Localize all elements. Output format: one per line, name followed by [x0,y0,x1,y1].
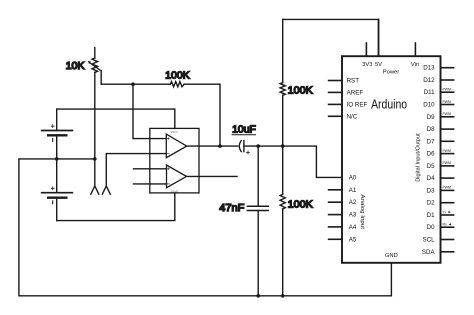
pin stub D0 [441,226,454,228]
svg-text:A2: A2 [349,199,357,206]
junction node C2 top [256,144,260,148]
pin stub D7 [441,140,454,142]
svg-text:D10: D10 [423,102,435,109]
wire C1 to Arduino A0 [244,146,342,177]
pin stub RST [329,80,342,82]
pin stub U1 amp B input - (open) [134,183,167,185]
svg-text:100K: 100K [165,71,190,82]
svg-text:PWM: PWM [443,112,451,116]
pin stub AREF [329,91,342,93]
svg-text:100K: 100K [288,199,313,210]
battery B2 [42,159,73,221]
pin stub U1 amp B output (open) [187,175,238,177]
probe hook (left, electrode) [91,186,99,194]
svg-text:3V3: 3V3 [362,62,372,68]
svg-text:Arduino: Arduino [371,97,407,112]
battery B1 [42,109,73,159]
pin stub D3 [441,189,454,191]
pin stub A1 [329,189,342,191]
svg-text:D13: D13 [423,65,435,72]
pin stub D4 [441,177,454,179]
svg-text:A5: A5 [349,236,357,243]
svg-text:PWM: PWM [443,88,451,92]
wire op-amp inverting input to probe hook [106,154,166,186]
svg-text:10K: 10K [66,61,85,72]
svg-text:100K: 100K [288,85,313,96]
pin stub D10 [441,104,454,106]
wire ground bus (left loop and bottom rail to Arduino GND) [19,159,392,296]
pin stub A5 [329,238,342,240]
svg-text:A0: A0 [349,174,357,181]
pin stub Vin [414,43,416,56]
wire wiper node down to op-amp non-inverting input [133,84,166,138]
junction output node feedback [218,144,222,148]
pin stub A2 [329,201,342,203]
pin stub U1 amp B input + (open) [134,168,167,170]
Arduino U2 body [342,56,441,263]
svg-text:SCL: SCL [423,237,436,244]
svg-text:47nF: 47nF [219,203,244,214]
svg-text:GND: GND [171,189,179,193]
capacitor C1 10uF (polarized) [239,141,249,154]
svg-text:D2: D2 [427,200,435,207]
svg-text:Rx: Rx [443,223,447,227]
pin stub D2 [441,202,454,204]
junction ground bus R4 [281,294,285,298]
junction battery midpoint [55,157,59,161]
svg-text:D1: D1 [427,212,435,219]
svg-text:D0: D0 [427,224,435,231]
svg-text:D5: D5 [427,163,435,170]
svg-text:A4: A4 [349,224,357,231]
svg-text:10uF: 10uF [232,124,256,135]
op-amp U1 body [150,128,199,193]
op-amp U1 amplifier A [166,134,186,158]
svg-text:PWM: PWM [443,149,451,153]
pin stub D12 [441,79,454,81]
junction wiper node [131,82,135,86]
pin stub D5 [441,165,454,167]
svg-text:D12: D12 [423,77,435,84]
capacitor C2 47nF [247,146,268,296]
svg-text:SDA: SDA [422,249,436,256]
probe hook (right, electrode) [102,186,110,194]
junction pot bottom / probe [93,157,97,161]
pin stub D1 [441,214,454,216]
op-amp U1 amplifier B [167,165,187,188]
svg-text:Analog Input: Analog Input [359,194,365,229]
svg-text:IO REF: IO REF [347,101,368,108]
svg-text:D11: D11 [424,89,435,96]
svg-text:Digital Input/Output: Digital Input/Output [416,133,422,182]
svg-text:D8: D8 [427,126,435,133]
svg-text:A3: A3 [349,212,357,219]
pin stub A4 [329,226,342,228]
svg-text:N/C: N/C [347,113,358,120]
svg-text:D6: D6 [427,151,435,158]
svg-text:Tx: Tx [443,210,447,214]
svg-text:D9: D9 [427,114,435,121]
pin stub A3 [329,214,342,216]
pin stub 3V3 [365,43,367,56]
wire 5V supply top rail [283,19,379,56]
svg-text:GND: GND [385,253,398,259]
junction ground bus C2 [256,294,260,298]
svg-text:VCC: VCC [171,130,179,134]
pin stub D8 [441,128,454,130]
resistor R4 100K (lower, node A to ground) [280,146,285,296]
pin stub SCL [441,239,454,241]
wire wiper node to R2 [101,83,170,85]
junction node A divider [281,144,285,148]
pin stub 5V [378,19,380,56]
pin stub IO REF [329,103,342,105]
svg-text:D3: D3 [427,187,435,194]
svg-text:Vin: Vin [411,62,419,68]
potentiometer R1 10K [88,48,102,187]
resistor R3 100K (upper, supply to node A) [280,19,285,146]
svg-text:PWM: PWM [443,100,451,104]
pin stub SDA [441,251,454,253]
svg-text:A1: A1 [349,187,357,194]
wire battery B1 positive to op-amp VCC [57,109,175,128]
pin stub N/C [329,115,342,117]
svg-text:D7: D7 [427,138,435,145]
svg-text:Power: Power [383,69,400,75]
pin stub D9 [441,116,454,118]
pin stub D11 [441,91,454,93]
svg-text:5V: 5V [375,62,382,68]
svg-text:AREF: AREF [347,89,364,96]
svg-text:D4: D4 [427,175,435,182]
wire battery B2 negative to op-amp GND [57,193,175,221]
pin stub D13 [441,67,454,69]
resistor R2 100K (horizontal, feedback) [170,82,184,87]
wire R2 right end down to output node [184,84,220,146]
svg-text:PWM: PWM [443,161,451,165]
svg-text:PWM: PWM [443,186,451,190]
pin stub D6 [441,153,454,155]
svg-text:RST: RST [347,78,360,85]
wire op-amp A output to capacitor C1 [187,145,238,147]
